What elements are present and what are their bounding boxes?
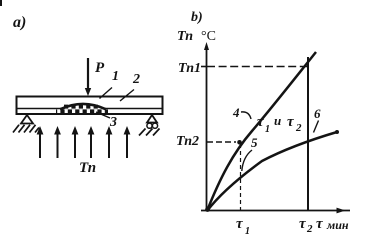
svg-text:а): а) — [13, 14, 26, 31]
svg-text:b): b) — [191, 10, 203, 25]
svg-text:мин: мин — [326, 218, 349, 232]
svg-text:1: 1 — [245, 226, 250, 235]
svg-text:Тп1: Тп1 — [178, 61, 201, 76]
svg-text:6: 6 — [314, 106, 321, 121]
svg-text:2: 2 — [295, 122, 302, 134]
svg-text:P: P — [95, 60, 105, 76]
svg-text:°C: °C — [201, 29, 216, 44]
svg-text:1: 1 — [265, 124, 270, 135]
svg-text:Тп: Тп — [177, 29, 193, 44]
svg-text:и: и — [274, 113, 281, 128]
svg-text:1: 1 — [112, 69, 119, 84]
svg-text:2: 2 — [306, 223, 313, 235]
svg-text:5: 5 — [251, 135, 258, 150]
svg-text:4: 4 — [232, 105, 240, 120]
svg-text:Тп: Тп — [79, 160, 96, 176]
svg-text:Тп2: Тп2 — [176, 134, 199, 149]
svg-text:3: 3 — [109, 115, 117, 130]
svg-text:2: 2 — [132, 72, 140, 87]
